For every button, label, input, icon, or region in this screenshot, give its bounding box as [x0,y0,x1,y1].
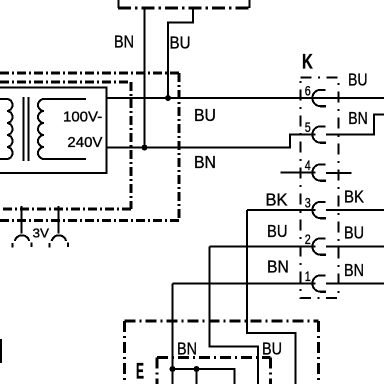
svg-text:BU: BU [267,221,288,241]
connector K pin 4 stub left [281,172,316,174]
connector K pin 1 wire right [326,283,384,285]
wire BK down to module E [247,210,296,384]
wire BN branch 2 inside module E [196,369,198,384]
control module enclosure right side stub [249,0,251,8]
svg-text:BU: BU [348,70,368,90]
svg-text:BU: BU [170,33,191,53]
connector K pin 6 contact [312,90,325,106]
svg-text:BN: BN [348,108,368,128]
wire BU net: transformer to connector K pin 6 [107,97,384,99]
junction node BN/E 2 [194,366,200,372]
svg-text:1: 1 [305,269,311,284]
svg-text:BN: BN [267,257,289,277]
svg-text:4: 4 [305,158,311,173]
3V contact wire left [21,206,23,234]
svg-text:BK: BK [266,190,288,210]
wire BU down to module E [210,247,259,384]
cropped wire at left image edge [0,339,2,363]
connector K pin 3 wire right [326,209,384,211]
svg-text:5: 5 [305,120,311,135]
svg-text:K: K [302,49,313,73]
svg-text:BN: BN [344,260,364,280]
svg-text:3V: 3V [33,226,50,241]
connector K pin 2 wire right [326,246,384,248]
svg-text:6: 6 [305,84,311,99]
wire BN: pin 1 left [173,283,316,285]
connector K enclosure (dash-dot) [301,78,339,299]
svg-text:E: E [136,359,144,384]
control module enclosure left side stub [118,0,120,8]
wire BN from top module down to BN net [144,8,146,148]
wire BU from top module down to BU net [168,8,193,98]
wire BK: pin 3 left [247,209,316,211]
junction node on BU net [165,95,171,101]
connector K pin 5 wire right [326,115,384,135]
svg-text:BN: BN [194,152,216,172]
wire BN down to module E [172,284,174,384]
power module inner enclosure (dash-dot) [0,82,131,209]
svg-text:BU: BU [344,223,364,243]
connector K pin 4 stub right [326,172,352,174]
transformer T1 secondary winding [38,99,44,159]
svg-text:BN: BN [177,339,197,359]
transformer T1 body box [0,88,107,174]
junction node BN/E [170,366,176,372]
3V contact socket left [15,235,29,241]
wire BN net: transformer to connector K pin 5 [107,135,316,148]
wire BN branch inside module E [173,369,235,384]
power module outer enclosure (dash-dot) [0,73,179,221]
wire BU: pin 2 left [210,246,316,248]
3V contact socket right [52,235,66,241]
transformer T1 primary lead bottom [0,158,7,160]
module E enclosure (dash-dot) [125,321,319,384]
junction node on BN net [142,145,148,151]
connector K pin 5 contact [312,126,325,142]
module E inner enclosure (dash-dot) [157,358,271,384]
svg-text:3: 3 [305,196,311,211]
connector K pin 2 contact [312,238,325,254]
svg-text:BU: BU [262,339,282,359]
transformer T1 secondary lead top [44,98,86,100]
svg-text:BK: BK [344,187,364,207]
svg-text:2: 2 [305,232,311,247]
connector K pin 3 contact [312,202,325,218]
connector K pin 1 contact [312,275,325,291]
transformer T1 secondary lead bottom [44,158,86,160]
control module enclosure (top, dash-dot) [118,7,250,10]
svg-text:240V: 240V [67,134,102,151]
transformer T1 primary winding [7,99,13,159]
svg-text:BN: BN [114,32,134,52]
3V contact wire right [57,206,59,234]
transformer T1 core [24,97,29,161]
svg-text:BU: BU [194,105,216,125]
svg-text:100V-: 100V- [63,109,102,126]
transformer T1 primary lead top [0,98,7,100]
connector K pin 4 contact [312,164,325,180]
